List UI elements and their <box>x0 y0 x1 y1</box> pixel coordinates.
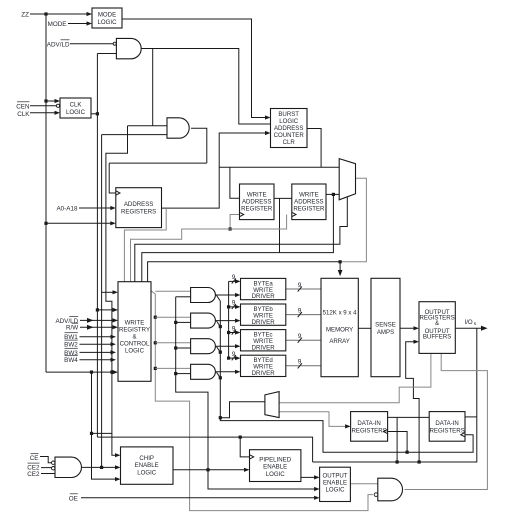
wire I/O feedback vertical down to write-data line <box>313 328 477 463</box>
wire black clock rail feeding byte gates lower inputs <box>174 297 320 491</box>
wire WAR1 output drop to feedback line 2 <box>279 198 281 252</box>
wire CHIP ENABLE output to PIPELINED ENABLE <box>173 468 250 472</box>
mux B data multiplexer <box>265 392 279 418</box>
wire arrow into MEMORY ARRAY top <box>338 260 343 276</box>
wire CE gate output to CHIP ENABLE LOGIC <box>82 465 121 469</box>
svg-text:R/W: R/W <box>66 325 78 332</box>
wire gate U3 output down to register clock line <box>191 128 207 163</box>
svg-text:BURST: BURST <box>278 111 299 118</box>
wire mux output loop to WRITE REGISTRY top feed 5 <box>148 262 341 282</box>
svg-text:BW2: BW2 <box>64 342 78 349</box>
box SENSE AMPS <box>371 278 400 376</box>
node R/W label with overline on W and block arrow <box>66 323 118 332</box>
wire ZZ bottom branch into WRITE REGISTRY bottom input <box>46 370 118 374</box>
svg-text:SENSE: SENSE <box>375 322 396 329</box>
node ADV/LD label left with overline and block arrow <box>55 316 118 325</box>
node ZZ label <box>21 11 29 18</box>
svg-text:ENABLE: ENABLE <box>323 480 347 487</box>
node MODE label <box>48 21 67 28</box>
wire ZZ rail into ADDRESS REGISTERS lower input <box>46 221 116 225</box>
wire taps into byte gates lower inputs <box>176 297 191 374</box>
op-amp U2 AND gate for ADV/LD <box>113 38 141 58</box>
node 9 bus width marker byte a output <box>298 282 302 292</box>
wire gray clock loop B to WAR clocks and WRITE REGISTRY top feed 2 <box>131 215 287 282</box>
svg-text:ADV/LD: ADV/LD <box>47 41 70 48</box>
svg-text:LOGIC: LOGIC <box>266 471 286 478</box>
svg-text:DRIVER: DRIVER <box>252 344 276 351</box>
wire ZZ zigzag to CHIP ENABLE top input <box>92 372 121 457</box>
wire WAR2 output loop to WRITE REGISTRY top feed 4 <box>142 193 335 282</box>
op-amp U5 AND gate byte b <box>191 313 216 328</box>
svg-text:&: & <box>435 320 439 327</box>
svg-text:DRIVER: DRIVER <box>252 293 276 300</box>
node I/Os label <box>465 319 477 327</box>
wire ADDRESS REGISTERS output up to BURST box input 3 <box>162 131 271 208</box>
svg-text:LOGIC: LOGIC <box>125 347 145 354</box>
wire PIPELINED ENABLE output to OUTPUT ENABLE input 1 <box>301 475 320 479</box>
node 9 bus width marker byte c input <box>232 325 236 334</box>
svg-text:REGISTRY: REGISTRY <box>119 326 150 333</box>
wire ZZ input to MODE LOGIC <box>30 12 92 16</box>
svg-text:LOGIC: LOGIC <box>66 109 86 116</box>
svg-text:CLK: CLK <box>17 111 30 118</box>
node 9 bus width marker byte d output <box>298 359 302 369</box>
wire SENSE AMPS to OUTPUT REGISTERS <box>400 326 419 330</box>
wire gate output diagonals onto data rail P1 <box>217 295 221 377</box>
node A0-A18 label <box>56 206 78 213</box>
wire output regs lower feed zigzag <box>406 340 419 462</box>
wire byte gate outputs to write drivers <box>215 293 240 374</box>
svg-text:DRIVER: DRIVER <box>252 370 276 377</box>
box CLK LOGIC <box>60 98 91 118</box>
node BW2 label with overline <box>64 340 116 349</box>
svg-text:REGISTER: REGISTER <box>293 206 325 213</box>
svg-text:ADDRESS: ADDRESS <box>294 199 323 206</box>
wire branch from P1 to MUX B input with jog <box>220 402 265 418</box>
wire WAR1 clock riser from gray clock loop <box>229 215 240 231</box>
node CEN label with overline <box>16 102 30 111</box>
node CE label with overline <box>30 454 39 463</box>
svg-text:CLK: CLK <box>70 102 82 109</box>
wire BURST box output down to MUX A input line <box>307 129 321 168</box>
wire CLK into CLK LOGIC <box>30 111 60 115</box>
wire data-in2 right edge feed from I/O rail <box>465 416 477 418</box>
wire gray enable rail from WRITE REGISTRY right edge down past gates <box>151 291 373 511</box>
box DATA-IN REGISTERS 1 <box>351 412 388 442</box>
node 9 bus width marker byte c output <box>298 333 302 343</box>
svg-text:REGISTERS: REGISTERS <box>429 427 464 434</box>
svg-text:WRITE: WRITE <box>247 192 267 199</box>
svg-text:DATA-IN: DATA-IN <box>435 420 458 427</box>
svg-text:OE: OE <box>69 495 78 502</box>
wire CLK rail branch into WRITE REGISTRY input <box>97 308 118 312</box>
svg-text:ARRAY: ARRAY <box>329 338 350 345</box>
node OE label with overline <box>69 494 78 503</box>
box MODE LOGIC <box>92 8 122 28</box>
box OUTPUT REGISTERS AND OUTPUT BUFFERS <box>419 302 455 354</box>
svg-text:COUNTER: COUNTER <box>274 132 305 139</box>
wire data-in link drop to write-data line <box>396 417 398 462</box>
svg-text:ADDRESS: ADDRESS <box>242 199 271 206</box>
wire I/O output line with arrow <box>455 326 487 331</box>
box ADDRESS REGISTERS <box>116 188 162 228</box>
box MEMORY ARRAY 512K x 9 x 4 <box>321 278 358 376</box>
box BYTEb WRITE DRIVER <box>241 304 286 326</box>
svg-text:CE: CE <box>30 455 39 462</box>
svg-text:512K x 9 x 4: 512K x 9 x 4 <box>323 310 357 317</box>
wire CLK rail into gate U2 lower input <box>97 53 116 55</box>
svg-text:PIPELINED: PIPELINED <box>259 456 291 463</box>
wire gray clock loop A to WRITE REGISTRY top feed 1 <box>124 208 166 282</box>
wire data-in 1 clock feed from write-data line <box>388 432 409 454</box>
box BYTEd WRITE DRIVER <box>241 355 286 377</box>
node BW1 label with overline <box>64 333 116 342</box>
svg-text:CEN: CEN <box>16 103 30 110</box>
node BW3 label with overline <box>64 348 116 357</box>
wire MUX A output down to memory with arrow <box>340 178 366 261</box>
svg-text:ZZ: ZZ <box>21 11 29 18</box>
node 9 bus width marker byte b output <box>298 307 302 317</box>
wire gate U3 lower input line from CE rail <box>102 134 167 136</box>
svg-text:DRIVER: DRIVER <box>252 319 276 326</box>
wire 9-bit taps into write drivers <box>229 279 241 360</box>
node BW4 label with overline <box>64 356 116 365</box>
wire ADV/LD into gate U2 bubble <box>70 43 113 45</box>
wire gray MUX B lower input from DATA-IN 1 <box>279 412 351 429</box>
node CE2 label plain <box>27 471 40 478</box>
svg-text:ENABLE: ENABLE <box>263 464 287 471</box>
wire WAR1 output to WAR2 input <box>274 197 292 199</box>
box PIPELINED ENABLE LOGIC <box>250 450 301 482</box>
svg-text:OUTPUT: OUTPUT <box>322 473 347 480</box>
wire gray loop output regs bottom to MUX B upper input <box>279 353 431 402</box>
box WRITE ADDRESS REGISTER 1 <box>240 184 275 220</box>
wire ZZ vertical rail down left side <box>44 14 47 372</box>
box CHIP ENABLE LOGIC <box>121 447 174 484</box>
svg-text:CONTROL: CONTROL <box>120 340 150 347</box>
wire CE input lines <box>40 457 55 474</box>
svg-text:WRITE: WRITE <box>299 192 319 199</box>
node CLK label <box>17 111 30 118</box>
wire CLK LOGIC output to CLK rail <box>91 113 97 115</box>
wire branch down into WRITE ADDRESS REGISTER 1 <box>230 167 240 198</box>
wire ZZ branch into CLK LOGIC <box>46 99 60 103</box>
wire CE rail branch into WRITE REGISTRY input 1 <box>102 290 118 294</box>
wire ZZ drop to CHIP ENABLE bottom input <box>90 372 121 481</box>
svg-text:REGISTERS: REGISTERS <box>121 208 156 215</box>
wire WAR2 output into MUX A lower input <box>326 193 339 195</box>
wire gate U2 output branch down to gate U3 upper input line <box>152 49 154 126</box>
box BURST LOGIC ADDRESS COUNTER CLR <box>271 109 308 148</box>
svg-text:AMPS: AMPS <box>377 329 394 336</box>
svg-text:CE2: CE2 <box>27 471 40 478</box>
wire clock line y437 from CLK rail to pipelined drop <box>97 436 312 463</box>
svg-text:BUFFERS: BUFFERS <box>423 333 451 340</box>
box WRITE REGISTRY AND CONTROL LOGIC <box>118 282 151 382</box>
svg-text:MEMORY: MEMORY <box>326 327 353 334</box>
wire MEMORY ARRAY to SENSE AMPS <box>358 327 371 329</box>
mux A address multiplexer <box>339 159 355 200</box>
svg-text:LOGIC: LOGIC <box>279 118 299 125</box>
op-amp U6 AND gate byte c <box>191 339 216 354</box>
svg-text:REGISTER: REGISTER <box>241 206 273 213</box>
svg-text:MODE: MODE <box>98 12 116 19</box>
wire CEN into CLK LOGIC with bubble <box>30 104 60 107</box>
svg-text:ENABLE: ENABLE <box>135 462 159 469</box>
svg-text:LOGIC: LOGIC <box>326 487 346 494</box>
wire address registers clock drop <box>109 163 116 193</box>
wire data-in register link line <box>388 416 430 418</box>
wire clock line to address registers clock <box>109 162 207 164</box>
wire address line to MUX A input <box>219 166 339 168</box>
svg-text:MODE: MODE <box>48 21 67 28</box>
node ADV/LD label top with overline on LD <box>47 40 70 49</box>
box WRITE ADDRESS REGISTER 2 <box>292 184 326 220</box>
svg-text:&: & <box>132 333 136 340</box>
wire gate U9 output up to OUTPUT REGISTERS bottom <box>405 353 488 489</box>
svg-text:ADDRESS: ADDRESS <box>124 201 153 208</box>
wire gray taps into byte gates upper inputs <box>155 291 190 368</box>
box BYTEa WRITE DRIVER <box>241 278 286 300</box>
svg-text:LOGIC: LOGIC <box>98 19 118 26</box>
svg-text:CLR: CLR <box>283 139 296 146</box>
svg-text:A0-A18: A0-A18 <box>56 206 78 213</box>
wire A0-A18 into ADDRESS REGISTERS <box>79 206 116 210</box>
svg-text:I/O: I/O <box>465 319 473 326</box>
wire write driver outputs into MEMORY ARRAY <box>286 289 321 366</box>
op-amp U8 AND gate chip enable with bubbles <box>52 457 82 477</box>
svg-text:REGISTERS: REGISTERS <box>351 427 386 434</box>
svg-text:LOGIC: LOGIC <box>137 469 157 476</box>
wire pipelined enable input 1 drop <box>240 437 249 457</box>
wire jog from U3 upper line down register-clock vertical to ZZ branch line <box>106 126 128 372</box>
box BYTEc WRITE DRIVER <box>241 330 286 352</box>
node CE2 label with overline <box>27 463 40 472</box>
svg-text:BW4: BW4 <box>64 357 78 364</box>
svg-text:ADDRESS: ADDRESS <box>274 125 303 132</box>
svg-text:DATA-IN: DATA-IN <box>357 420 380 427</box>
wire MUX A underside loop to WRITE REGISTRY top feed 3 <box>135 197 347 282</box>
wire rail P1 vertical down to data-in loop <box>219 301 473 452</box>
box DATA-IN REGISTERS 2 <box>429 412 465 442</box>
node 9 bus width marker byte a input <box>232 274 236 283</box>
wire OE line to OUTPUT ENABLE input 3 <box>81 496 320 500</box>
op-amp U9 AND gate output enable with bubble <box>374 478 402 501</box>
wire gate U3 upper input line <box>128 125 168 127</box>
op-amp U3 AND gate burst clock <box>167 118 189 138</box>
node 9 bus width marker byte b input <box>232 300 236 309</box>
op-amp U7 AND gate byte d <box>191 364 216 379</box>
wire CLK rail vertical (from CLK LOGIC out, up to gate U2, down page) <box>96 54 99 438</box>
wire gate U2 output to BURST box input 2 with bubble <box>141 49 275 127</box>
svg-text:CHIP: CHIP <box>139 455 154 462</box>
wire write-data vertical for byte write drivers (9-bit) <box>227 281 230 359</box>
wire MODE LOGIC output to BURST box input 1 <box>122 19 271 120</box>
wire MODE into MODE LOGIC <box>68 21 92 25</box>
svg-text:WRITE: WRITE <box>125 319 145 326</box>
wire CE rail vertical <box>101 135 103 468</box>
wire OUTPUT ENABLE output to gate U9 <box>350 483 377 485</box>
box OUTPUT ENABLE LOGIC <box>320 467 351 501</box>
node 9 bus width marker byte d input <box>232 351 236 360</box>
op-amp U4 AND gate byte a <box>191 288 216 303</box>
